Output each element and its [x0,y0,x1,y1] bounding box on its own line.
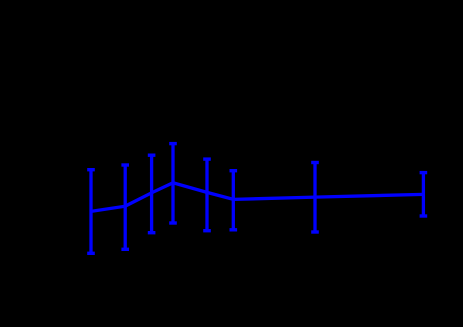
errorbar 4 [169,144,177,223]
data line [91,183,423,212]
errorbar 2 [121,165,129,249]
errorbar 1 [87,170,95,254]
errorbar 6 [230,171,238,230]
errorbar 5 [203,159,211,231]
errorbar 8 [420,173,428,216]
errorbar 7 [311,163,319,233]
errorbar 3 [148,155,156,233]
